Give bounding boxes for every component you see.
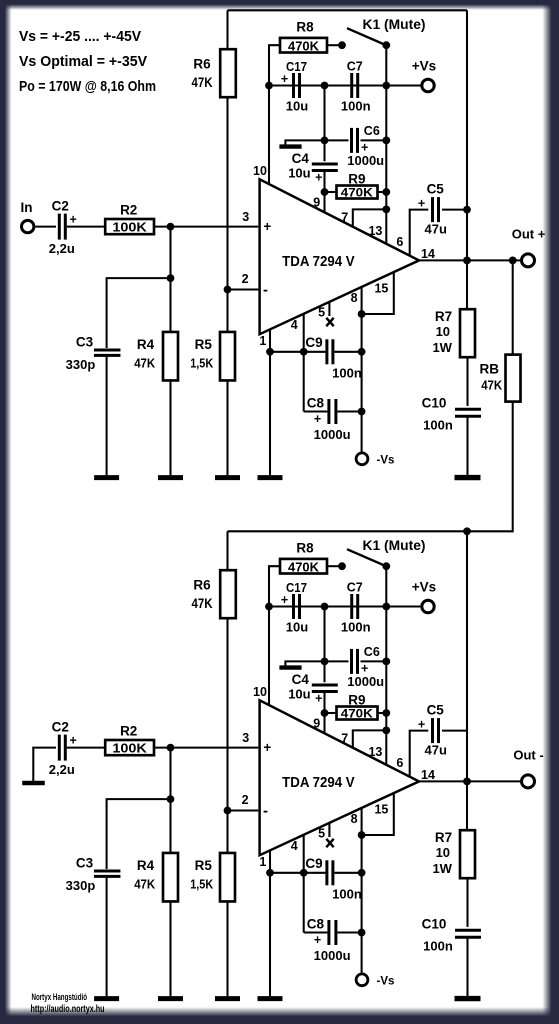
svg-text:8: 8 <box>351 291 358 305</box>
wire R7 to C10 (ch2) <box>466 878 468 927</box>
node output/right rail (ch1) <box>463 257 471 265</box>
resistor R7 10 1W (ch2) <box>460 830 475 878</box>
svg-text:+: + <box>263 219 271 234</box>
wire R2 to pin 3 (ch2) <box>154 747 258 749</box>
wire chassis stub (ch1) <box>285 140 324 145</box>
wire mid node down (ch2) <box>323 607 325 683</box>
node pin8/15 (ch1) <box>358 310 366 318</box>
node R8 switch contact (ch1) <box>338 41 346 49</box>
svg-text:470K: 470K <box>341 707 373 721</box>
svg-text:1: 1 <box>259 855 266 869</box>
wire top supply rail (ch2) <box>228 530 468 532</box>
pin 5 stub (ch1) <box>328 302 330 316</box>
pin 2 wire (ch1) <box>228 288 259 290</box>
resistor R6 47K (ch1) <box>220 49 236 97</box>
terminal -Vs (ch1) <box>356 453 368 465</box>
ground at R5 (ch2) <box>215 996 240 1001</box>
pin 14 output wire (ch2) <box>419 780 520 782</box>
wire R6 to R5 (ch1) <box>226 97 228 332</box>
svg-text:K1 (Mute): K1 (Mute) <box>363 537 426 553</box>
resistor R7 10 1W (ch1) <box>460 309 475 357</box>
wire C5 right (ch2) <box>442 730 467 732</box>
svg-text:C10: C10 <box>422 396 447 411</box>
capacitor C4 10u (ch2) <box>312 683 338 686</box>
resistor RB 47K bridge feedback <box>512 260 514 354</box>
svg-text:5: 5 <box>318 306 325 320</box>
svg-text:+: + <box>70 213 77 227</box>
svg-text:In: In <box>21 200 33 215</box>
svg-text:+: + <box>281 72 288 86</box>
pin 6 wire (ch1) <box>410 210 429 257</box>
wire R6 top lead (ch1) <box>226 10 228 49</box>
ground at R5 (ch1) <box>215 475 240 480</box>
svg-text:R8: R8 <box>296 541 314 556</box>
svg-text:R7: R7 <box>435 309 452 324</box>
resistor R9 470K (ch1) <box>325 191 337 193</box>
wire R4 top lead (ch2) <box>169 748 171 853</box>
pin 15 wire (ch1) <box>362 273 394 314</box>
wire R8 left lead (ch2) <box>269 566 280 606</box>
svg-text:6: 6 <box>396 756 403 770</box>
svg-text:+: + <box>315 171 322 185</box>
pin 7 wire (ch1) <box>353 209 387 227</box>
wire mute net vertical (ch1) <box>385 86 387 245</box>
svg-text:4: 4 <box>291 839 298 853</box>
ground at R4 (ch2) <box>158 996 183 1001</box>
svg-text:R4: R4 <box>137 858 155 873</box>
ground at pin1 (ch1) <box>258 475 283 480</box>
svg-text:R4: R4 <box>137 337 155 352</box>
svg-text:-: - <box>263 803 268 820</box>
capacitor C6 1000u (ch2) <box>325 660 349 662</box>
svg-text:C4: C4 <box>292 151 310 166</box>
resistor R9 470K (ch2) <box>325 712 337 714</box>
svg-text:14: 14 <box>421 768 435 782</box>
capacitor C5 47u (ch1) <box>431 197 434 222</box>
node C6 left (ch2) <box>321 658 329 666</box>
svg-text:100n: 100n <box>341 98 371 113</box>
node pin1 (ch1) <box>266 348 274 356</box>
op-amp U1 TDA 7294 V (ch1) <box>260 179 419 334</box>
svg-text:1000u: 1000u <box>314 427 351 442</box>
pin 4 wire (ch2) <box>303 835 305 933</box>
svg-text:10u: 10u <box>286 619 308 634</box>
node R2 out (ch1) <box>167 223 175 231</box>
svg-text:C4: C4 <box>292 672 310 687</box>
svg-text:47K: 47K <box>192 75 213 90</box>
resistor R4 47K (ch1) <box>163 332 178 381</box>
svg-text:+: + <box>263 740 271 755</box>
wire C9 row (ch1) <box>270 351 325 353</box>
svg-text:1000u: 1000u <box>314 948 351 963</box>
wire right rail (ch2) <box>466 531 468 781</box>
svg-text:100K: 100K <box>112 741 147 756</box>
capacitor C2 2,2u (ch2) <box>58 735 61 761</box>
svg-text:C10: C10 <box>422 917 447 932</box>
svg-text:8: 8 <box>351 812 358 826</box>
capacitor C2 2,2u (ch1) <box>58 214 61 240</box>
svg-text:R6: R6 <box>193 56 211 71</box>
resistor R6 47K (ch2) <box>220 570 236 618</box>
node C6 right (ch1) <box>382 137 390 145</box>
wire R5 bottom (ch1) <box>226 381 228 476</box>
capacitor C17 10u (ch2) <box>292 594 295 619</box>
resistor R5 1,5K (ch2) <box>220 853 235 902</box>
svg-text:R9: R9 <box>348 171 365 186</box>
svg-text:+: + <box>418 197 425 211</box>
wire R7 top lead (ch1) <box>466 260 468 309</box>
pin 4 wire (ch1) <box>303 314 305 412</box>
capacitor C9 100n (ch2) <box>325 860 328 885</box>
svg-text:C2: C2 <box>52 719 69 734</box>
wire R8 right lead (ch1) <box>327 44 342 46</box>
pin 10 wire (ch2) <box>268 607 270 706</box>
svg-text:+: + <box>281 593 288 607</box>
svg-text:+: + <box>314 933 321 947</box>
frame bottom <box>0 1007 559 1024</box>
wire mid node down (ch1) <box>323 86 325 162</box>
pin 8 wire (ch1) <box>361 288 363 452</box>
svg-text:C9: C9 <box>305 856 322 871</box>
wire R7 top lead (ch2) <box>466 781 468 830</box>
wire R4 bottom (ch1) <box>169 381 171 476</box>
node R9 left (ch2) <box>321 709 329 717</box>
svg-text:2: 2 <box>242 272 249 286</box>
pin 1 wire (ch1) <box>269 329 271 475</box>
capacitor C10 100n (ch1) <box>455 408 481 411</box>
node C17/C7 (ch2) <box>321 603 329 611</box>
ground at pin1 (ch2) <box>258 996 283 1001</box>
wire +Vs rail (ch2) <box>269 605 420 607</box>
node R5/pin2 (ch1) <box>224 286 232 294</box>
wire R8 left lead (ch1) <box>269 45 280 85</box>
svg-text:1,5K: 1,5K <box>190 356 214 371</box>
wire R4 bottom (ch2) <box>169 902 171 997</box>
svg-text:2: 2 <box>242 793 249 807</box>
svg-text:C3: C3 <box>76 856 94 871</box>
svg-text:-Vs: -Vs <box>377 975 395 987</box>
op-amp U2 TDA 7294 V (ch2) <box>260 700 419 855</box>
svg-text:R9: R9 <box>348 692 365 707</box>
svg-text:Po = 170W @ 8,16 Ohm: Po = 170W @ 8,16 Ohm <box>19 79 156 95</box>
capacitor C10 100n (ch2) <box>455 929 481 932</box>
pin 10 wire (ch1) <box>268 86 270 185</box>
svg-text:2,2u: 2,2u <box>49 241 75 256</box>
wire C4 bottom (ch2) <box>323 692 325 714</box>
pin 15 wire (ch2) <box>362 794 394 835</box>
wire In to C2 (ch1) <box>36 226 57 228</box>
svg-text:C17: C17 <box>286 60 307 74</box>
svg-text:47u: 47u <box>424 742 446 757</box>
frame left <box>0 0 12 1024</box>
wire R6 top lead (ch2) <box>226 531 228 570</box>
node R8 switch contact (ch2) <box>338 562 346 570</box>
frame top <box>0 0 559 10</box>
svg-text:10u: 10u <box>288 686 310 701</box>
wire K1 to +Vs rail (ch1) <box>385 45 387 85</box>
svg-text:1,5K: 1,5K <box>190 877 214 892</box>
svg-text:4: 4 <box>291 318 298 332</box>
node pin7/13 (ch1) <box>382 206 390 214</box>
node C7 right (ch1) <box>382 82 390 90</box>
svg-text:C6: C6 <box>364 124 380 138</box>
switch K1 (Mute) blade (ch1) <box>347 28 386 45</box>
ground at C3 (ch1) <box>94 475 119 480</box>
svg-text:2,2u: 2,2u <box>49 762 75 777</box>
node R9 left (ch1) <box>321 188 329 196</box>
wire C3 bottom (ch2) <box>106 878 108 997</box>
wire K1 to +Vs rail (ch2) <box>385 566 387 606</box>
svg-text:C8: C8 <box>307 917 325 932</box>
wire chassis stub (ch2) <box>285 661 324 666</box>
svg-text:47u: 47u <box>424 221 446 236</box>
terminal Out - (ch2) <box>522 775 535 788</box>
node R9 right (ch1) <box>382 188 390 196</box>
node K1 pole (ch1) <box>382 41 390 49</box>
svg-text:R2: R2 <box>120 202 137 217</box>
X mark pin5 (ch2) <box>326 839 333 847</box>
node C3 tap (ch1) <box>167 274 175 282</box>
svg-text:-: - <box>263 282 268 299</box>
svg-text:+: + <box>314 412 321 426</box>
wire +Vs rail (ch1) <box>269 84 420 86</box>
svg-text:10: 10 <box>253 685 267 699</box>
terminal +Vs (ch1) <box>422 79 434 91</box>
svg-text:15: 15 <box>374 803 388 817</box>
svg-text:100n: 100n <box>332 366 362 381</box>
wire C10 bottom (ch1) <box>466 416 468 475</box>
pin 2 wire (ch2) <box>228 809 259 811</box>
node C17 left (ch2) <box>265 603 273 611</box>
wire C3 bottom (ch1) <box>106 357 108 476</box>
svg-text:47K: 47K <box>134 356 156 371</box>
svg-text:330p: 330p <box>66 357 96 372</box>
capacitor C7 100n (ch1) <box>350 73 353 98</box>
node R2 out (ch2) <box>167 744 175 752</box>
node pin4 (ch1) <box>300 348 308 356</box>
svg-text:1W: 1W <box>432 861 452 876</box>
svg-text:+: + <box>70 734 77 748</box>
svg-text:Vs Optimal = +-35V: Vs Optimal = +-35V <box>19 54 147 70</box>
resistor R8 470K (ch2) <box>280 559 327 574</box>
node R5/pin2 (ch2) <box>224 807 232 815</box>
svg-text:470K: 470K <box>288 39 319 53</box>
svg-text:15: 15 <box>374 282 388 296</box>
svg-text:100n: 100n <box>332 887 362 902</box>
wire right rail (ch1) <box>466 10 468 260</box>
ground at C3 (ch2) <box>94 996 119 1001</box>
svg-text:C6: C6 <box>364 645 380 659</box>
switch K1 (Mute) blade (ch2) <box>347 549 386 566</box>
capacitor C3 330p (ch2) <box>94 870 121 873</box>
svg-text:-Vs: -Vs <box>377 454 395 466</box>
pin 5 stub (ch2) <box>328 823 330 837</box>
node C7 right (ch2) <box>382 603 390 611</box>
node C5/right rail (ch1) <box>463 206 471 214</box>
wire C2 to R2 (ch2) <box>67 747 105 749</box>
svg-text:+: + <box>418 718 425 732</box>
capacitor C5 47u (ch2) <box>431 718 434 743</box>
X mark pin5 (ch1) <box>326 318 333 326</box>
pin 8 wire (ch2) <box>361 809 363 973</box>
svg-text:10: 10 <box>436 324 450 339</box>
wire C9 row (ch2) <box>270 872 325 874</box>
chassis ground bar (ch1) <box>279 144 301 148</box>
svg-text:Nortyx Hangstúdió: Nortyx Hangstúdió <box>32 992 88 1002</box>
svg-text:3: 3 <box>242 731 249 745</box>
pin 9 wire (ch2) <box>323 713 325 734</box>
node K1 pole (ch2) <box>382 562 390 570</box>
svg-text:100n: 100n <box>423 939 453 954</box>
capacitor C9 100n (ch1) <box>325 339 328 364</box>
node C8 right (ch2) <box>358 929 366 937</box>
terminal -Vs (ch2) <box>356 974 368 986</box>
svg-text:C2: C2 <box>52 198 69 213</box>
wire C2 left to ground (ch2) <box>33 748 56 782</box>
svg-text:100K: 100K <box>112 220 147 235</box>
ground at C2 (ch2) <box>22 781 45 786</box>
svg-text:R2: R2 <box>120 723 137 738</box>
node C17 left (ch1) <box>265 82 273 90</box>
ground at C10 (ch1) <box>455 475 481 480</box>
svg-text:330p: 330p <box>66 878 96 893</box>
svg-text:100n: 100n <box>423 418 453 433</box>
node C6 left (ch1) <box>321 137 329 145</box>
svg-text:10: 10 <box>436 845 450 860</box>
wire C4 bottom (ch1) <box>323 171 325 193</box>
resistor R2 100K (ch1) <box>105 219 154 234</box>
svg-text:C17: C17 <box>286 581 307 595</box>
svg-text:3: 3 <box>242 210 249 224</box>
resistor R8 470K (ch1) <box>280 38 327 53</box>
capacitor C17 10u (ch1) <box>292 73 295 98</box>
svg-text:R8: R8 <box>296 20 314 35</box>
svg-text:C7: C7 <box>347 580 363 594</box>
node pin1 (ch2) <box>266 869 274 877</box>
pin 1 wire (ch2) <box>269 850 271 996</box>
wire C3 branch (ch2) <box>107 799 171 869</box>
wire C8 row (ch2) <box>304 931 328 933</box>
svg-text:C5: C5 <box>427 702 445 717</box>
resistor R5 1,5K (ch1) <box>220 332 235 381</box>
wire R8 right lead (ch2) <box>327 565 342 567</box>
node pin8/15 (ch2) <box>358 831 366 839</box>
svg-text:47K: 47K <box>134 877 156 892</box>
svg-text:R5: R5 <box>195 858 213 873</box>
svg-text:R7: R7 <box>435 830 452 845</box>
capacitor C6 1000u (ch1) <box>325 139 349 141</box>
capacitor C7 100n (ch2) <box>350 594 353 619</box>
resistor R4 47K (ch2) <box>163 853 178 902</box>
wire top supply rail (ch1) <box>228 9 468 11</box>
svg-text:http://audio.nortyx.hu: http://audio.nortyx.hu <box>31 1004 105 1015</box>
terminal In (ch1) <box>22 220 34 232</box>
node C8 right (ch1) <box>358 408 366 416</box>
wire C2 to R2 (ch1) <box>67 226 105 228</box>
svg-text:470K: 470K <box>288 560 319 574</box>
node C3 tap (ch2) <box>167 795 175 803</box>
svg-text:Out -: Out - <box>513 747 543 762</box>
pin 7 wire (ch2) <box>353 730 387 748</box>
svg-text:+: + <box>315 692 322 706</box>
resistor R2 100K (ch2) <box>105 740 154 755</box>
svg-text:R6: R6 <box>193 577 211 592</box>
capacitor C3 330p (ch1) <box>94 349 121 352</box>
node output/RB (ch1) <box>509 257 517 265</box>
capacitor C4 10u (ch1) <box>312 162 338 165</box>
svg-text:Vs = +-25 .... +-45V: Vs = +-25 .... +-45V <box>19 29 141 45</box>
svg-text:C5: C5 <box>427 181 445 196</box>
chassis ground bar (ch2) <box>279 665 301 669</box>
wire C10 bottom (ch2) <box>466 937 468 996</box>
frame right <box>543 0 559 1024</box>
svg-text:1: 1 <box>259 334 266 348</box>
svg-text:1W: 1W <box>432 340 452 355</box>
svg-text:K1 (Mute): K1 (Mute) <box>363 16 426 32</box>
pin 6 wire (ch2) <box>410 731 429 778</box>
node C9 right (ch1) <box>358 348 366 356</box>
svg-text:14: 14 <box>421 247 435 261</box>
node C17/C7 (ch1) <box>321 82 329 90</box>
svg-text:+Vs: +Vs <box>412 580 436 595</box>
svg-text:C7: C7 <box>347 59 363 73</box>
pin 9 wire (ch1) <box>323 192 325 213</box>
svg-text:C9: C9 <box>305 335 322 350</box>
terminal Out + (ch1) <box>522 254 535 267</box>
svg-text:C8: C8 <box>307 396 325 411</box>
svg-text:10u: 10u <box>286 98 308 113</box>
svg-text:1000u: 1000u <box>347 674 384 689</box>
wire R5 bottom (ch2) <box>226 902 228 997</box>
svg-text:RB: RB <box>480 362 500 377</box>
pin 14 output wire (ch1) <box>419 259 520 261</box>
svg-text:1000u: 1000u <box>347 153 384 168</box>
svg-text:Out +: Out + <box>512 226 546 241</box>
svg-text:6: 6 <box>396 235 403 249</box>
capacitor C8 1000u (ch2) <box>327 920 330 945</box>
svg-text:100n: 100n <box>341 619 371 634</box>
wire R2 to pin 3 (ch1) <box>154 226 258 228</box>
ground at R4 (ch1) <box>158 475 183 480</box>
wire R4 top lead (ch1) <box>169 227 171 332</box>
svg-text:47K: 47K <box>481 377 503 392</box>
wire C5 right (ch1) <box>442 209 467 211</box>
terminal +Vs (ch2) <box>422 600 434 612</box>
svg-text:10u: 10u <box>288 165 310 180</box>
node C9 right (ch2) <box>358 869 366 877</box>
svg-text:+Vs: +Vs <box>412 59 436 74</box>
node C6 right (ch2) <box>382 658 390 666</box>
node R9 right (ch2) <box>382 709 390 717</box>
svg-text:R5: R5 <box>195 337 213 352</box>
wire C8 row (ch1) <box>304 410 328 412</box>
node output/right rail (ch2) <box>463 778 471 786</box>
wire R6 to R5 (ch2) <box>226 618 228 853</box>
ground at C10 (ch2) <box>455 996 481 1001</box>
svg-text:47K: 47K <box>192 596 213 611</box>
svg-text:10: 10 <box>253 164 267 178</box>
svg-text:C3: C3 <box>76 335 94 350</box>
wire R7 to C10 (ch1) <box>466 357 468 406</box>
wire C3 branch (ch1) <box>107 278 171 348</box>
node RB to ch2 rail <box>463 527 471 535</box>
svg-text:5: 5 <box>318 827 325 841</box>
node pin7/13 (ch2) <box>382 727 390 735</box>
svg-text:470K: 470K <box>341 186 373 200</box>
wire mute net vertical (ch2) <box>385 607 387 766</box>
capacitor C8 1000u (ch1) <box>327 399 330 424</box>
svg-text:TDA 7294 V: TDA 7294 V <box>282 253 355 270</box>
